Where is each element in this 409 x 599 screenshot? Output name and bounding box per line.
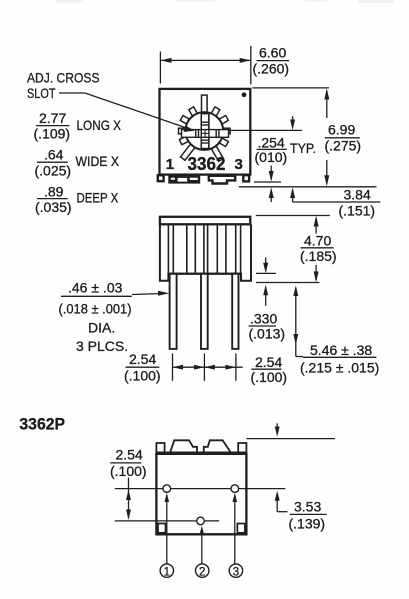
line L4 seating-plane extension xyxy=(239,186,377,188)
body outline xyxy=(160,89,251,175)
hole centerline lower xyxy=(115,520,220,522)
dim 6.99 arrows xyxy=(326,91,328,118)
hole centerline upper xyxy=(115,488,286,490)
svg-text:(.018 ± .001): (.018 ± .001) xyxy=(59,301,132,317)
svg-text:(.100): (.100) xyxy=(110,463,147,479)
svg-text:2.54: 2.54 xyxy=(116,447,143,463)
inner top line xyxy=(156,453,246,456)
svg-text:(.185): (.185) xyxy=(300,248,337,264)
svg-text:.330: .330 xyxy=(250,311,277,327)
dim 3.53 lower arrow + leader xyxy=(276,494,278,512)
svg-text:(.013): (.013) xyxy=(249,326,286,342)
slot leader arrowhead xyxy=(184,126,195,132)
svg-text:(.100): (.100) xyxy=(251,369,288,385)
dim .254 down arrow (to feet line) xyxy=(270,166,272,179)
svg-text:(.025): (.025) xyxy=(35,162,72,178)
bottom-right corner notch xyxy=(237,524,245,533)
pin3 leader xyxy=(234,495,236,564)
ribbed body outline xyxy=(160,224,251,280)
rotor circle xyxy=(185,112,223,150)
dim 6.60 line xyxy=(160,59,250,61)
svg-text:(.260): (.260) xyxy=(253,61,290,77)
svg-text:TYP.: TYP. xyxy=(290,140,316,156)
dim 6.60 right extension line xyxy=(250,46,252,85)
cover cap xyxy=(160,217,250,225)
top profile with bumps xyxy=(156,440,246,452)
svg-text:6.99: 6.99 xyxy=(328,122,355,138)
lead dia arrow xyxy=(132,294,162,295)
svg-text:2.77: 2.77 xyxy=(39,110,66,126)
svg-text:6.60: 6.60 xyxy=(259,45,286,61)
wide foot B xyxy=(209,176,235,184)
pin pitch extension lines xyxy=(172,353,174,380)
svg-text:3 PLCS.: 3 PLCS. xyxy=(76,338,128,354)
pin number 3 xyxy=(229,564,242,577)
svg-text:(010): (010) xyxy=(255,149,288,165)
slot leader line xyxy=(59,93,188,129)
orientation dot xyxy=(242,92,247,97)
dim 6.60 left extension line xyxy=(159,52,161,84)
line L2 slot-center extension xyxy=(228,129,302,131)
dim 4.70 xyxy=(315,218,317,234)
pin2 leader xyxy=(201,528,203,564)
line L3 feet-bottom extension xyxy=(254,181,281,183)
svg-text:1: 1 xyxy=(166,156,174,173)
rotor teeth xyxy=(179,95,231,161)
svg-text:2.54: 2.54 xyxy=(129,351,156,367)
bottom view body xyxy=(156,452,246,534)
dim 3.53 top line xyxy=(246,438,335,440)
svg-text:(.151): (.151) xyxy=(339,203,376,219)
leg 1 xyxy=(170,274,177,349)
svg-text:(.275): (.275) xyxy=(325,138,362,154)
pin number 1 xyxy=(160,564,173,577)
svg-text:WIDE X: WIDE X xyxy=(76,153,120,169)
top edge artifacts xyxy=(55,0,394,3)
pitch dim line 2-3 xyxy=(204,366,236,368)
leg 2 xyxy=(201,274,208,349)
leg 3 xyxy=(232,274,238,349)
svg-text:DEEP X: DEEP X xyxy=(77,190,119,206)
svg-text:LONG X: LONG X xyxy=(77,117,122,133)
svg-text:4.70: 4.70 xyxy=(304,233,331,249)
svg-text:3.84: 3.84 xyxy=(344,187,371,203)
step extension line xyxy=(256,272,276,274)
dim 5.46 xyxy=(295,288,297,357)
svg-text:(.100): (.100) xyxy=(124,368,161,384)
wide foot A xyxy=(168,175,200,183)
dim 3.84 upper arrow (to slot line) xyxy=(292,116,294,127)
svg-text:3.53: 3.53 xyxy=(294,499,321,515)
svg-text:3362: 3362 xyxy=(188,154,226,174)
svg-text:2: 2 xyxy=(199,566,205,578)
dim .330 arrows xyxy=(265,257,267,270)
svg-text:.46 ± .03: .46 ± .03 xyxy=(68,280,123,296)
svg-text:DIA.: DIA. xyxy=(88,320,115,336)
svg-text:3: 3 xyxy=(233,566,239,578)
hole 2 xyxy=(197,517,205,525)
right corner foot xyxy=(243,175,249,181)
hole 1 xyxy=(163,485,171,493)
step line xyxy=(168,273,242,275)
pin1 leader xyxy=(166,495,168,564)
svg-text:.89: .89 xyxy=(44,183,64,199)
cross slot xyxy=(182,114,229,149)
left corner foot xyxy=(158,175,164,181)
svg-text:(.035): (.035) xyxy=(35,199,72,215)
svg-text:ADJ. CROSS: ADJ. CROSS xyxy=(27,70,100,86)
svg-text:SLOT: SLOT xyxy=(27,85,56,101)
svg-text:(.215 ± .015): (.215 ± .015) xyxy=(300,360,379,376)
seating extension line xyxy=(256,282,319,284)
svg-text:(.109): (.109) xyxy=(34,126,71,142)
pin number 2 xyxy=(196,564,209,577)
dim .254 up arrow (to seating line) xyxy=(270,191,272,203)
dim 3.84 lower arrow (to seating line) xyxy=(292,191,294,203)
pitch dim line 1-2 xyxy=(173,366,205,368)
svg-text:3: 3 xyxy=(235,156,243,173)
svg-text:2.54: 2.54 xyxy=(255,354,282,370)
svg-text:.64: .64 xyxy=(44,147,64,163)
svg-text:(.139): (.139) xyxy=(289,516,326,532)
hole 3 xyxy=(231,485,239,493)
line L1 body-top extension xyxy=(252,87,329,89)
svg-text:3362P: 3362P xyxy=(19,415,65,434)
cap-top extension line xyxy=(256,215,330,217)
svg-text:5.46 ± .38: 5.46 ± .38 xyxy=(310,342,372,358)
dim 3.84 leader / fraction bar xyxy=(293,201,381,203)
svg-text:1: 1 xyxy=(164,566,170,578)
body ribs xyxy=(168,224,240,273)
bottom-left corner notch xyxy=(158,524,166,533)
